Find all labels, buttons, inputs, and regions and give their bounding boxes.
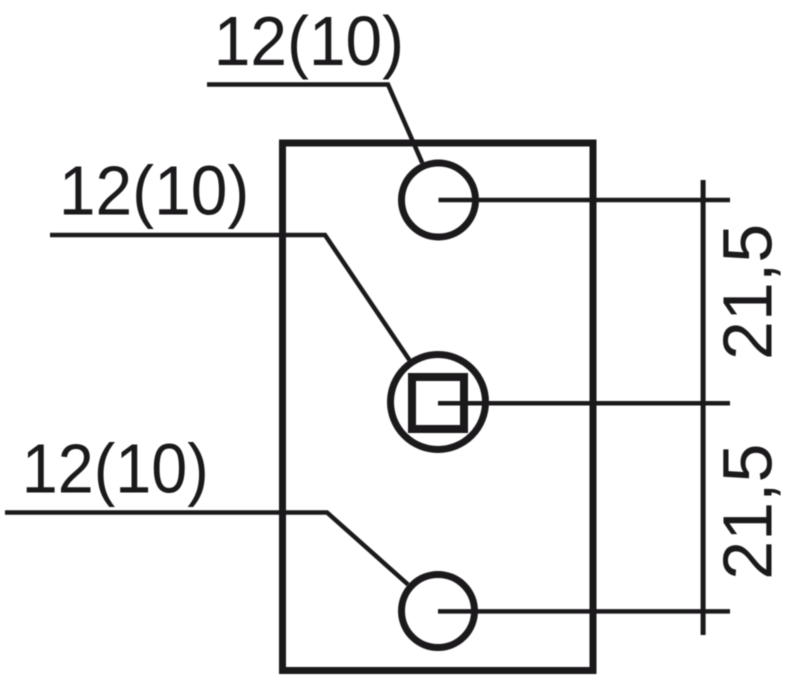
svg-text:12(10): 12(10): [214, 2, 404, 80]
plate outline: [283, 143, 594, 671]
leader line bottom label: [5, 513, 408, 585]
square hole marker: [412, 377, 464, 429]
leader line middle label: [50, 235, 409, 360]
svg-text:21,5: 21,5: [709, 444, 787, 580]
svg-text:12(10): 12(10): [59, 152, 249, 230]
hole top circle: [402, 163, 476, 237]
dimension line middle: [438, 401, 730, 406]
hole bottom circle: [402, 575, 475, 648]
leader line top label: [207, 85, 422, 164]
extension line vertical: [701, 180, 706, 635]
svg-text:21,5: 21,5: [709, 224, 787, 360]
dimension line bottom: [438, 609, 730, 614]
dimension line top: [439, 198, 731, 203]
svg-text:12(10): 12(10): [22, 430, 209, 508]
hole middle circle: [391, 355, 486, 450]
